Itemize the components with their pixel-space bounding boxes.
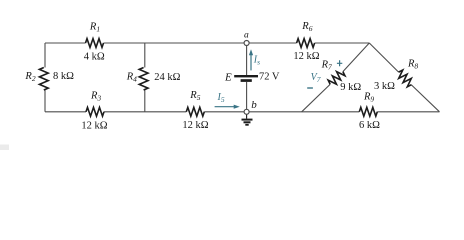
svg-text:I5: I5 [217,92,225,104]
ground [242,114,253,125]
plus sign V7 [337,60,342,66]
svg-text:4 kΩ: 4 kΩ [84,51,105,62]
minus sign V7 [307,87,313,89]
svg-text:a: a [244,30,249,40]
svg-text:R2: R2 [24,71,35,83]
wire middle vertical [144,43,146,112]
resistor R1 [86,39,104,48]
battery E plates [234,75,258,82]
current arrow I5 [215,105,240,109]
resistor R8 [396,69,415,88]
svg-text:R6: R6 [301,21,312,33]
resistor R3 [86,107,104,116]
wire battery branch vertical [246,43,248,112]
svg-text:12 kΩ: 12 kΩ [81,121,107,132]
resistor R2 [39,68,48,91]
resistor R4 [139,68,148,91]
svg-text:E: E [224,72,232,84]
svg-text:3 kΩ: 3 kΩ [374,81,395,92]
svg-text:R5: R5 [189,90,200,102]
node b [244,109,249,114]
svg-text:b: b [251,99,257,111]
svg-text:8 kΩ: 8 kΩ [53,71,74,82]
resistor R6 [297,39,315,48]
svg-text:R1: R1 [89,22,100,34]
svg-text:R4: R4 [126,71,137,83]
svg-text:R8: R8 [407,59,418,71]
wire diagonal R8 to vertex C [411,85,439,112]
svg-text:R3: R3 [90,90,101,102]
resistor R9 [359,107,377,116]
svg-text:12 kΩ: 12 kΩ [293,51,319,62]
wire left vertical [44,43,46,112]
wire diagonal R7 to vertex B [302,84,330,111]
svg-text:9 kΩ: 9 kΩ [340,82,361,93]
scan artifact bottom left [0,145,9,151]
wire diagonal apex to R7 [343,43,369,72]
svg-text:72 V: 72 V [259,72,280,83]
node a [244,41,249,46]
svg-text:R7: R7 [321,60,332,72]
svg-text:24 kΩ: 24 kΩ [154,72,180,83]
svg-text:6 kΩ: 6 kΩ [359,120,380,131]
wire diagonal apex to R8 [369,43,398,72]
wire bottom horizontal [45,111,440,113]
svg-text:V7: V7 [311,72,321,84]
svg-text:Is: Is [253,55,260,67]
wire top horizontal [45,42,369,44]
resistor R5 [186,107,204,116]
resistor R7 [327,68,346,87]
svg-text:12 kΩ: 12 kΩ [182,120,208,131]
svg-text:R9: R9 [363,92,374,104]
current arrow Is [249,49,253,70]
